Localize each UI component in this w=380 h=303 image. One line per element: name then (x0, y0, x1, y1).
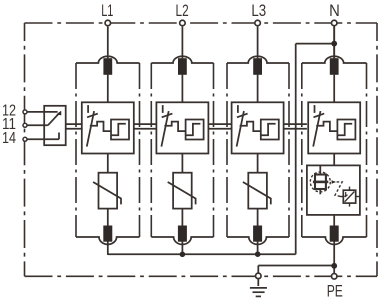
svg-text:N: N (329, 2, 340, 20)
svg-text:PE: PE (327, 283, 343, 301)
svg-text:L3: L3 (251, 2, 266, 20)
svg-text:L1: L1 (101, 2, 113, 20)
svg-text:14: 14 (2, 130, 16, 147)
svg-text:L2: L2 (176, 2, 189, 20)
